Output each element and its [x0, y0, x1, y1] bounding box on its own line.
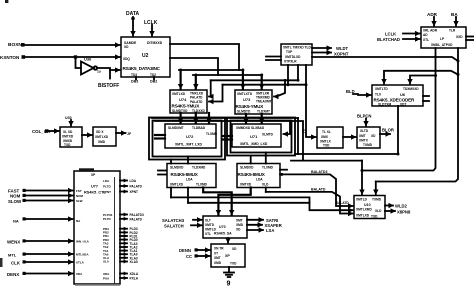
pin stub U4 right a — [466, 36, 474, 38]
wire drop to U73 pin2 — [261, 75, 263, 89]
svg-text:SALATCH: SALATCH — [164, 224, 184, 229]
IC U10 driver — [354, 196, 385, 219]
IC U5 timing block — [281, 44, 312, 65]
svg-text:XDLA: XDLA — [130, 272, 139, 276]
wire shield U71 inner to U76 pin2 — [265, 153, 267, 164]
node DENN — [179, 248, 198, 253]
IC U75 RS4K5-8MUX — [167, 164, 216, 188]
svg-text:XXD: XXD — [456, 35, 463, 39]
svg-text:WENX: WENX — [7, 239, 20, 244]
wire BA to U4 — [455, 17, 457, 26]
svg-text:PALATD: PALATD — [130, 185, 143, 189]
node MTL — [8, 253, 26, 258]
wire run y197 to U10 left — [171, 197, 353, 210]
svg-text:RS4K5_SA: RS4K5_SA — [214, 232, 232, 236]
node DATA — [126, 11, 140, 20]
svg-text:9: 9 — [227, 281, 231, 286]
svg-text:XLA0: XLA0 — [130, 260, 138, 264]
svg-text:XLMTD: XLMTD — [262, 133, 274, 137]
wire SALATCH to U70 — [191, 224, 202, 226]
IC U72 — [165, 124, 218, 148]
pin stub U5 left b — [266, 59, 281, 61]
wire harness run y118 — [152, 117, 298, 119]
wire U70 bottom to U69 — [227, 238, 229, 243]
svg-text:XMT: XMT — [359, 134, 366, 138]
wire U4 pin down left column — [362, 48, 436, 171]
wire BLATCHAD to U4 — [403, 38, 420, 40]
svg-text:BALATD: BALATD — [311, 188, 326, 192]
wire KXNTON to U2 — [25, 56, 120, 58]
node WENX — [7, 239, 26, 244]
svg-text:LCLK: LCLK — [385, 32, 396, 37]
wire BLPCN down — [365, 119, 367, 126]
wire DENN to U69 — [197, 249, 210, 251]
pin stub U77 TLA1 — [103, 249, 138, 253]
svg-text:XDQ: XDQ — [123, 57, 130, 61]
svg-text:BALATD3: BALATD3 — [311, 170, 328, 174]
node NA — [13, 217, 26, 223]
wire labelled BALATD to U10 — [266, 192, 353, 214]
junction left column y57 — [434, 56, 437, 59]
pin stub U77 XPNT — [103, 190, 138, 194]
node BOXN — [8, 42, 25, 48]
wire U6 top pin 1 to right column jog — [384, 71, 458, 84]
pin stub U77 PALATD — [103, 217, 143, 221]
wire labelled BALATD3 to U10 — [280, 174, 353, 206]
pin stub U77 PLD2 — [103, 231, 138, 235]
wire block A to block B — [82, 134, 92, 136]
wire DATA to U2 — [132, 17, 134, 36]
wire drop to U73 pin1 — [242, 70, 244, 89]
wire vertical into U10 pin1 — [361, 161, 363, 194]
svg-text:DENN: DENN — [179, 248, 191, 253]
svg-text:XMTD: XMTD — [205, 223, 215, 227]
junction — [179, 117, 182, 120]
junction — [241, 69, 244, 72]
wire BOXN to U2 — [24, 44, 120, 46]
junction left column y75 — [434, 74, 437, 77]
svg-text:XMT: XMT — [214, 256, 221, 260]
wire into U73 right pin — [274, 80, 285, 96]
wire U5 pin3 down to E block — [306, 65, 316, 137]
pin stub U75 left a — [158, 170, 167, 172]
junction — [297, 79, 300, 82]
svg-text:U74: U74 — [179, 97, 187, 102]
svg-text:BA: BA — [451, 12, 458, 17]
wire harness run y121 and corner down — [155, 121, 303, 161]
wire shield U72 inner to U75 pin2 — [187, 157, 189, 164]
junction — [287, 83, 290, 86]
scan smudge — [75, 284, 120, 286]
svg-text:1u: 1u — [97, 70, 101, 74]
wire NOM to U77 — [25, 195, 73, 197]
svg-text:TL XL: TL XL — [322, 130, 331, 134]
svg-text:KXNTON: KXNTON — [0, 55, 20, 60]
svg-text:XMTDLXD: XMTDLXD — [285, 55, 301, 59]
wire U75 pin2 down to run y202 — [187, 188, 189, 203]
svg-text:NOM: NOM — [76, 194, 84, 198]
svg-text:XLTD: XLTD — [360, 129, 369, 133]
wire U6 bottom pin down — [397, 106, 399, 154]
svg-text:CC: CC — [186, 254, 192, 259]
node DENX — [7, 272, 26, 277]
svg-text:XMTLXTD: XMTLXTD — [237, 92, 253, 96]
junction — [305, 83, 308, 86]
svg-text:XMTL TMXXD TLD: XMTL TMXXD TLD — [283, 46, 311, 50]
wire CC to U69 — [197, 255, 210, 257]
svg-text:LDA: LDA — [256, 178, 263, 182]
svg-text:PLTD: PLTD — [103, 217, 111, 221]
wire SALATCH3 to U70 — [193, 219, 202, 221]
shield box inner around U72 — [153, 121, 222, 157]
wire NA to U77 — [25, 218, 73, 220]
wire long run y160.6 — [291, 160, 362, 162]
pin stub U77 TLA0 — [103, 252, 138, 256]
svg-text:WN_ULA: WN_ULA — [76, 240, 90, 244]
wire U5 pin1 down — [287, 65, 289, 85]
svg-text:XMTX: XMTX — [359, 139, 369, 143]
svg-text:NA: NA — [13, 218, 19, 223]
svg-text:TLXMD: TLXMD — [262, 166, 274, 170]
junction — [280, 173, 283, 176]
wire U74 pin to U72 pin1 — [180, 113, 182, 123]
svg-text:E: E — [302, 129, 305, 134]
wire left column jog to U10 top pin2 — [375, 182, 377, 195]
svg-text:BOXN: BOXN — [8, 42, 22, 48]
svg-text:TMLAXMT: TMLAXMT — [256, 100, 272, 104]
pin stub U77 TLA2 — [103, 245, 138, 249]
svg-text:XMTLD: XMTLD — [356, 198, 368, 202]
svg-text:SALATCH3: SALATCH3 — [162, 218, 185, 223]
node CLK — [11, 260, 26, 265]
svg-text:XTL: XTL — [423, 38, 429, 42]
junction right column y57 — [457, 60, 460, 63]
node SLOW — [8, 199, 26, 204]
svg-text:XMD: XMD — [98, 140, 106, 144]
svg-text:PALATD: PALATD — [130, 217, 143, 221]
svg-text:XMTLXMD: XMTLXMD — [356, 208, 372, 212]
svg-text:XTL: XTL — [205, 232, 211, 236]
junction — [361, 169, 364, 172]
junction right column y74 — [457, 73, 460, 76]
wire U75 pin3 cross to U70 — [203, 188, 232, 215]
svg-text:TLXMD: TLXMD — [196, 183, 208, 187]
junction — [260, 74, 263, 77]
svg-text:XLT: XLT — [205, 219, 211, 223]
svg-text:U6: U6 — [400, 92, 406, 97]
wire stub to BISTOFF — [109, 70, 111, 79]
svg-text:XL XD: XL XD — [63, 130, 73, 134]
svg-text:FST: FST — [76, 189, 82, 193]
wire LCLK to U2 — [151, 25, 153, 36]
pin stub U72 left a — [155, 134, 165, 136]
svg-text:BLOR: BLOR — [382, 128, 394, 133]
svg-text:SLMDXD: SLMDXD — [240, 166, 254, 170]
svg-text:XMD: XMD — [214, 261, 222, 265]
wire U30 down to block A — [70, 120, 72, 126]
pin stub U77 PLD1 — [103, 234, 138, 238]
svg-text:TXMD: TXMD — [363, 143, 373, 147]
pin stub U77 PXLA — [103, 276, 139, 280]
node FAST — [8, 189, 26, 194]
svg-text:TLXMD: TLXMD — [206, 132, 218, 136]
IC U69 — [211, 244, 245, 267]
node CC — [186, 254, 198, 259]
wire U73 pin to U71 pin2 — [261, 114, 263, 123]
shield box outer around U71 — [227, 118, 295, 156]
node NOM — [10, 194, 26, 199]
svg-text:SLMDXMT: SLMDXMT — [168, 126, 184, 130]
wire harness run y70 — [179, 69, 243, 71]
wire DENX to U77 — [25, 273, 73, 275]
IC U77 RS4K5_CTL — [74, 168, 120, 284]
IC U71 — [232, 124, 281, 147]
wire U74 pin to U72 pin2 — [195, 113, 197, 123]
svg-text:TXD: TXD — [230, 262, 237, 266]
svg-text:PXA: PXA — [103, 276, 110, 280]
svg-text:WLD2: WLD2 — [395, 204, 408, 209]
wire into U71 right pin — [284, 121, 291, 134]
svg-text:XMTLXD: XMTLXD — [356, 214, 370, 218]
wire LCLK to U4 — [403, 33, 420, 35]
svg-text:U73: U73 — [243, 97, 251, 102]
svg-text:XP: XP — [225, 254, 230, 258]
svg-text:U71: U71 — [250, 134, 258, 139]
IC U74 RS4K5-YMUX — [170, 90, 207, 113]
pin stub U2 bottom 2 — [153, 77, 155, 80]
svg-text:SLMDXD: SLMDXD — [170, 166, 184, 170]
svg-text:PALATD: PALATD — [190, 96, 203, 100]
wire U36 output to U2 — [97, 68, 119, 70]
wire E block to BLPCN block — [343, 136, 356, 138]
junction — [284, 79, 287, 82]
svg-text:RS4K5-YMUX: RS4K5-YMUX — [236, 104, 265, 109]
junction — [260, 120, 263, 123]
scan mark left edge — [0, 258, 3, 267]
pin stub U72 left b — [155, 137, 165, 139]
svg-text:DITMXXD: DITMXXD — [147, 41, 163, 45]
IC U73 RS4K5-YMUX — [235, 90, 272, 114]
svg-text:U2: U2 — [142, 53, 149, 59]
svg-text:SLMDTD: SLMDTD — [237, 110, 251, 114]
svg-text:SLOW: SLOW — [8, 199, 22, 204]
wire BLD to U6 — [353, 94, 371, 95]
svg-text:XDT: XDT — [400, 103, 406, 107]
svg-text:RS4K5-YMUX: RS4K5-YMUX — [172, 104, 201, 109]
svg-text:SLW: SLW — [76, 199, 83, 203]
wire KXNTON junction down to U36 input — [76, 58, 81, 68]
IC U6 RS4K5_XDECODER — [372, 85, 423, 107]
wire U5 to XOPNT — [312, 52, 331, 54]
IC U4 latch block — [421, 27, 466, 48]
svg-text:LCLK: LCLK — [144, 20, 158, 26]
svg-text:DB3: DB3 — [131, 79, 138, 83]
svg-text:XMD: XMD — [236, 223, 244, 227]
svg-text:TXD: TXD — [371, 215, 378, 219]
svg-text:U10: U10 — [364, 203, 371, 207]
wire shield U72 outer to U75 pin1 — [170, 160, 172, 164]
svg-text:XMTXD: XMTXD — [62, 135, 74, 139]
svg-text:BLATCHAD: BLATCHAD — [377, 37, 400, 42]
wire U10 out X8PN8 — [385, 210, 395, 212]
IC block A color — [60, 127, 82, 147]
svg-text:AD: AD — [423, 33, 428, 37]
shield box outer around U72 — [149, 118, 225, 160]
junction — [194, 120, 197, 123]
wire U70 out XSAPER — [247, 224, 262, 226]
svg-text:LDA: LDA — [186, 178, 193, 182]
pin stub U5 left a — [266, 56, 281, 58]
wire U74 pin3 to U72 — [208, 113, 210, 123]
svg-text:XMTLTD: XMTLTD — [375, 87, 388, 91]
svg-text:XD: XD — [236, 228, 241, 232]
pin stub U75 left b — [158, 174, 167, 176]
pin stub U76 right — [280, 169, 287, 171]
junction U6 drop on y154 — [397, 153, 400, 156]
wire U2 out2 right and down — [170, 58, 218, 75]
svg-text:TLDXXD: TLDXXD — [192, 109, 205, 113]
wire U2 out1 right and down — [170, 44, 239, 70]
svg-text:XD: XD — [371, 134, 376, 138]
wire COL_OR to block A — [48, 130, 59, 132]
svg-text:DENX: DENX — [7, 272, 19, 277]
svg-text:BLPCN: BLPCN — [357, 114, 371, 119]
pin stub U77 TLA3 — [103, 242, 138, 246]
svg-text:XT: XT — [214, 252, 218, 256]
wire MTL to U77 — [25, 253, 73, 255]
buffer U36 — [81, 57, 97, 75]
pin stub U77 PALATD — [103, 184, 143, 188]
pin stub U77 PLD3 — [103, 227, 138, 231]
svg-text:XMTXD: XMTXD — [240, 183, 252, 187]
svg-text:XDA: XDA — [103, 272, 110, 276]
svg-text:CLK: CLK — [11, 260, 21, 265]
svg-text:XMTLXD: XMTLXD — [95, 135, 109, 139]
IC block B color — [93, 127, 116, 146]
pin stub U4 right b — [466, 39, 474, 41]
svg-text:TLR: TLR — [449, 29, 456, 33]
junction — [179, 69, 182, 72]
IC E input block — [317, 127, 343, 148]
svg-text:XMTLXD: XMTLXD — [172, 92, 186, 96]
svg-text:XMTL_XMD_LXD: XMTL_XMD_LXD — [240, 142, 268, 146]
wire CLK to U77 — [25, 261, 73, 263]
wire U6 top pin 2 from left column — [410, 76, 436, 84]
junction on KXNTON wire — [74, 55, 77, 58]
svg-text:XD: XD — [232, 247, 237, 251]
ground — [224, 273, 234, 278]
node COL_OR — [32, 129, 51, 134]
svg-text:XMTLXD: XMTLXD — [170, 183, 184, 187]
svg-text:MTL: MTL — [8, 253, 17, 258]
wire block B out — [116, 132, 126, 134]
svg-text:TDXMXXD: TDXMXXD — [403, 87, 419, 91]
wire into U74 right pin a — [209, 80, 211, 96]
svg-text:XTLA: XTLA — [76, 261, 85, 265]
wire U70 out SATRI — [247, 219, 263, 221]
svg-text:XMT: XMT — [236, 219, 243, 223]
pin stub U71 left a — [223, 135, 232, 137]
pin stub U2 bottom 1 — [135, 77, 137, 80]
svg-text:SALATD: SALATD — [336, 201, 349, 205]
svg-text:XMMDXD SLXBAD: XMMDXD SLXBAD — [236, 126, 265, 130]
wire run y202 — [188, 202, 310, 204]
svg-text:PXLA: PXLA — [130, 277, 139, 281]
svg-text:RS4K5-8MUX: RS4K5-8MUX — [171, 172, 199, 177]
svg-text:TLX: TLX — [375, 93, 382, 97]
pin stub U77 XLA0 — [103, 260, 138, 264]
svg-text:U72: U72 — [186, 134, 194, 139]
svg-text:LDA: LDA — [103, 179, 110, 183]
wire harness run y75 — [193, 74, 262, 76]
svg-text:MTLXDA: MTLXDA — [76, 253, 89, 257]
pin stub U77 XLA3 — [103, 256, 138, 260]
IC U2 RS4K5_DATASYNC — [121, 37, 170, 77]
svg-text:RS4K5-8MUX: RS4K5-8MUX — [238, 172, 266, 177]
svg-text:XMX: XMX — [321, 135, 329, 139]
wire U76 pin2 down — [265, 188, 267, 192]
IC U70 sync block — [203, 216, 247, 238]
wire U10 out WLD2 — [385, 205, 393, 207]
svg-text:XD: XD — [124, 45, 129, 49]
svg-text:LDA: LDA — [130, 179, 137, 183]
pin stub U77 XDLA — [103, 272, 139, 276]
wire BLOR stub — [380, 133, 390, 135]
wire U5 to WLDT — [312, 47, 331, 49]
svg-text:XN TR: XN TR — [214, 247, 224, 251]
wire into U74 right pin b — [209, 85, 223, 102]
svg-text:XOPNT: XOPNT — [334, 52, 349, 57]
svg-text:XMDL_ATPXD: XMDL_ATPXD — [431, 43, 453, 47]
wire drop to U74 pin2 — [195, 75, 197, 89]
wire U69 bottom stub — [228, 267, 230, 272]
svg-text:TXP: TXP — [286, 50, 293, 54]
svg-text:U77: U77 — [91, 185, 98, 189]
svg-text:XRL ADR: XRL ADR — [423, 29, 438, 33]
pin stub U77 LDA — [103, 179, 137, 183]
svg-text:DB2: DB2 — [150, 79, 157, 83]
svg-text:RS4K5_DATA3INC: RS4K5_DATA3INC — [123, 66, 161, 71]
pin stub U6 right a — [423, 95, 429, 97]
svg-text:WLDT: WLDT — [336, 46, 349, 51]
svg-text:TLDBAD: TLDBAD — [192, 126, 206, 130]
svg-text:XLD: XLD — [262, 183, 269, 187]
svg-text:LSA: LSA — [266, 228, 274, 233]
junction — [245, 117, 248, 120]
svg-text:XDA: XDA — [76, 272, 83, 276]
wire drop to U74 pin1 — [180, 70, 182, 89]
svg-text:XPNT: XPNT — [130, 190, 139, 194]
svg-text:PLTD: PLTD — [103, 184, 111, 188]
wire U76 pin1 cross to U70 — [218, 188, 250, 215]
svg-text:XPNT: XPNT — [103, 190, 111, 194]
svg-text:TXD: TXD — [323, 144, 330, 148]
wire shield U71 outer to U76 pin1 — [250, 156, 252, 164]
svg-text:X8PN8: X8PN8 — [397, 210, 411, 215]
svg-text:U70: U70 — [219, 225, 226, 229]
pin stub U6 right b — [423, 100, 429, 102]
wire U75 pin1 down to run y197 — [170, 188, 172, 198]
svg-text:TLDXMD: TLDXMD — [192, 166, 206, 170]
wire U5 pin2 down — [297, 65, 299, 80]
wire U5 long run to right column — [312, 57, 458, 61]
svg-text:XMTL_XMT_LXD: XMTL_XMT_LXD — [175, 143, 202, 147]
wire corner y118 down — [297, 118, 299, 154]
svg-text:BISTOFF: BISTOFF — [98, 83, 119, 89]
wire ADR to U4 — [433, 17, 435, 26]
page mark — [5, 0, 8, 3]
wire FAST to U77 — [25, 190, 73, 192]
